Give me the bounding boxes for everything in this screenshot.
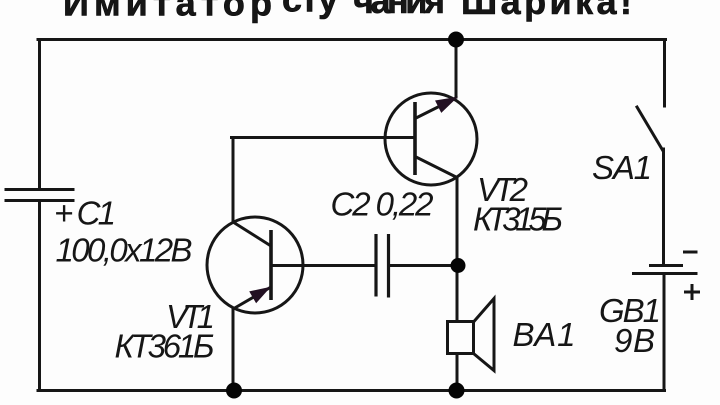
wire left rail lower (C1 to bottom) bbox=[38, 202, 41, 391]
wire speaker to bottom rail bbox=[456, 354, 459, 390]
speaker BA1 square bbox=[448, 322, 474, 354]
wire VT1 emitter vertical to bottom rail bbox=[232, 308, 235, 390]
transistor VT1 circle bbox=[207, 217, 303, 313]
svg-text:Имитатор: Имитатор bbox=[63, 0, 272, 24]
capacitor C1 top plate bbox=[6, 188, 73, 191]
transistor VT1 emitter arrow bbox=[250, 288, 270, 303]
transistor VT2 base bar bbox=[413, 102, 417, 175]
battery GB1 long (plus) line bbox=[632, 272, 698, 275]
node C2 right bbox=[451, 258, 466, 273]
battery GB1 plus sign bbox=[684, 284, 700, 300]
capacitor C2 left plate bbox=[374, 234, 377, 297]
wire VT2 emitter vertical to top rail bbox=[455, 40, 458, 97]
speaker BA1 horn bbox=[474, 299, 495, 371]
switch SA1 blade bbox=[637, 107, 663, 150]
wire battery to bottom rail bbox=[663, 275, 666, 391]
transistor VT1 collector diagonal bbox=[233, 222, 271, 246]
node top (VT2 emitter to rail) bbox=[448, 32, 464, 48]
wire base link to VT2 bbox=[232, 136, 415, 139]
wire VT2 collector vertical down to speaker bbox=[456, 177, 459, 321]
transistor VT2 emitter diagonal bbox=[416, 98, 456, 118]
svg-text:сту: сту bbox=[282, 0, 338, 20]
wire bottom rail bbox=[38, 389, 665, 392]
svg-text:чания: чания bbox=[353, 0, 445, 21]
svg-text:КТ361Б: КТ361Б bbox=[115, 328, 215, 365]
transistor VT2 circle bbox=[385, 93, 477, 185]
capacitor C2 right plate bbox=[387, 234, 390, 298]
transistor VT1 base bar bbox=[269, 230, 273, 300]
wire left rail upper (to C1) bbox=[38, 40, 41, 189]
wire C2 right plate to node bbox=[390, 264, 458, 267]
battery GB1 minus sign bbox=[683, 251, 698, 254]
svg-text:КТ315Б: КТ315Б bbox=[473, 201, 563, 238]
battery GB1 short (minus) line bbox=[649, 264, 683, 267]
wire top rail bbox=[38, 38, 666, 41]
node bottom left (VT1 emitter) bbox=[226, 383, 242, 399]
svg-text:С2 0,22: С2 0,22 bbox=[331, 186, 434, 223]
svg-text:9В: 9В bbox=[614, 322, 655, 359]
node bottom right (speaker) bbox=[449, 383, 465, 399]
svg-text:100,0х12В: 100,0х12В bbox=[56, 232, 193, 269]
title (cropped at top): Имитатор стучания Шарика! bbox=[63, 0, 632, 24]
svg-text:ВА1: ВА1 bbox=[513, 316, 576, 353]
wire VT1 collector vertical bbox=[232, 138, 235, 223]
capacitor C1 bottom plate bbox=[6, 199, 73, 202]
transistor VT2 emitter arrow bbox=[436, 98, 457, 113]
transistor VT2 collector diagonal bbox=[416, 157, 458, 178]
wire right rail upper (to switch) bbox=[663, 40, 666, 107]
wire switch to battery bbox=[662, 149, 665, 264]
svg-text:SA1: SA1 bbox=[592, 149, 652, 186]
svg-text:+ C1: + C1 bbox=[54, 195, 116, 232]
transistor VT1 emitter diagonal bbox=[233, 287, 271, 309]
wire VT1 base lead to C2 left plate bbox=[271, 264, 375, 267]
